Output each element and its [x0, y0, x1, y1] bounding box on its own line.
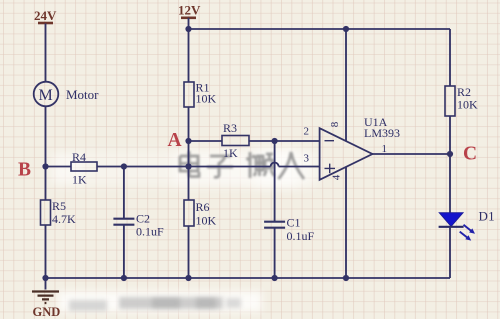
wire 12V to R1: [188, 29, 190, 82]
resistor R3: [222, 136, 249, 146]
resistor R1: [184, 82, 194, 107]
svg-text:GND: GND: [33, 305, 61, 319]
svg-text:R3: R3: [223, 121, 237, 135]
svg-text:Motor: Motor: [66, 87, 99, 102]
wire R6 to rail: [188, 226, 190, 278]
wire R4 to pin3 with hop over C1 line: [97, 166, 320, 168]
resistor R5: [41, 200, 51, 225]
watermark white blur mid: [52, 148, 320, 188]
wire output pin1 to node C: [372, 153, 450, 155]
svg-text:0.1uF: 0.1uF: [287, 229, 315, 243]
top rail wire: [189, 28, 451, 30]
junction rail-GND: [42, 275, 48, 281]
resistor R2: [445, 86, 455, 116]
svg-text:R5: R5: [52, 199, 66, 213]
junction at B: [42, 163, 48, 169]
wire R2 to node C: [449, 116, 451, 154]
power port 12V: [178, 3, 201, 18]
junction mid at x189: [185, 163, 191, 169]
svg-text:10K: 10K: [196, 214, 217, 228]
wire 24V to motor: [45, 24, 47, 83]
junction pin8 rail: [343, 26, 349, 32]
svg-text:LM393: LM393: [364, 126, 400, 140]
svg-text:4.7K: 4.7K: [52, 212, 76, 226]
capacitor C1: [264, 141, 285, 278]
junction C2 top: [121, 163, 127, 169]
svg-text:3: 3: [304, 153, 310, 165]
svg-text:M: M: [39, 87, 53, 104]
svg-text:D1: D1: [479, 209, 495, 224]
ground GND: [32, 278, 60, 319]
svg-text:8: 8: [329, 121, 341, 127]
capacitor C2: [113, 167, 134, 279]
junction C1 top: [272, 138, 278, 144]
diode D1 LED: [439, 213, 475, 241]
wire R3 to pin2: [249, 140, 320, 142]
junction R6 rail: [185, 275, 191, 281]
wire B to R4: [46, 166, 72, 168]
svg-text:R6: R6: [196, 200, 210, 214]
watermark white band bottom: [58, 291, 262, 312]
svg-text:0.1uF: 0.1uF: [136, 225, 164, 239]
junction pin4 rail: [343, 275, 349, 281]
wire motor to node B to R5: [45, 106, 47, 201]
motor M1: [34, 82, 59, 107]
junction C2 rail: [121, 275, 127, 281]
svg-text:C2: C2: [136, 212, 150, 226]
junction A: [185, 138, 191, 144]
wire hop arc: [271, 163, 279, 167]
resistor R6: [184, 200, 194, 226]
wire top rail corner down to R2: [449, 29, 451, 86]
svg-text:C: C: [463, 144, 477, 165]
svg-text:A: A: [168, 130, 182, 151]
wire R5 to rail: [45, 225, 47, 278]
junction 12V: [185, 26, 191, 32]
wire 12V stub: [188, 18, 190, 29]
svg-text:10K: 10K: [457, 98, 478, 112]
watermark gray characters: [180, 151, 304, 179]
svg-text:4: 4: [331, 174, 343, 180]
svg-text:24V: 24V: [34, 8, 57, 23]
wire node C to LED: [449, 154, 451, 213]
svg-text:C1: C1: [287, 216, 301, 230]
wire pin8 from top rail: [345, 29, 347, 141]
svg-text:B: B: [18, 160, 31, 181]
wire R1 to A to R6: [188, 107, 190, 200]
op-amp U1A: [320, 128, 373, 180]
svg-text:12V: 12V: [178, 3, 201, 18]
junction C1 rail: [272, 275, 278, 281]
bottom rail wire: [46, 277, 451, 279]
wire pin4 to bottom rail: [345, 167, 347, 278]
svg-text:1K: 1K: [223, 146, 238, 160]
wire A to R3: [189, 140, 223, 142]
svg-text:R4: R4: [72, 150, 86, 164]
junction C: [447, 151, 453, 157]
svg-text:10K: 10K: [196, 92, 217, 106]
resistor R4: [71, 162, 97, 171]
svg-text:2: 2: [304, 126, 310, 138]
svg-text:1K: 1K: [72, 173, 87, 187]
wire LED to rail corner: [449, 227, 451, 278]
power port 24V: [34, 8, 57, 23]
